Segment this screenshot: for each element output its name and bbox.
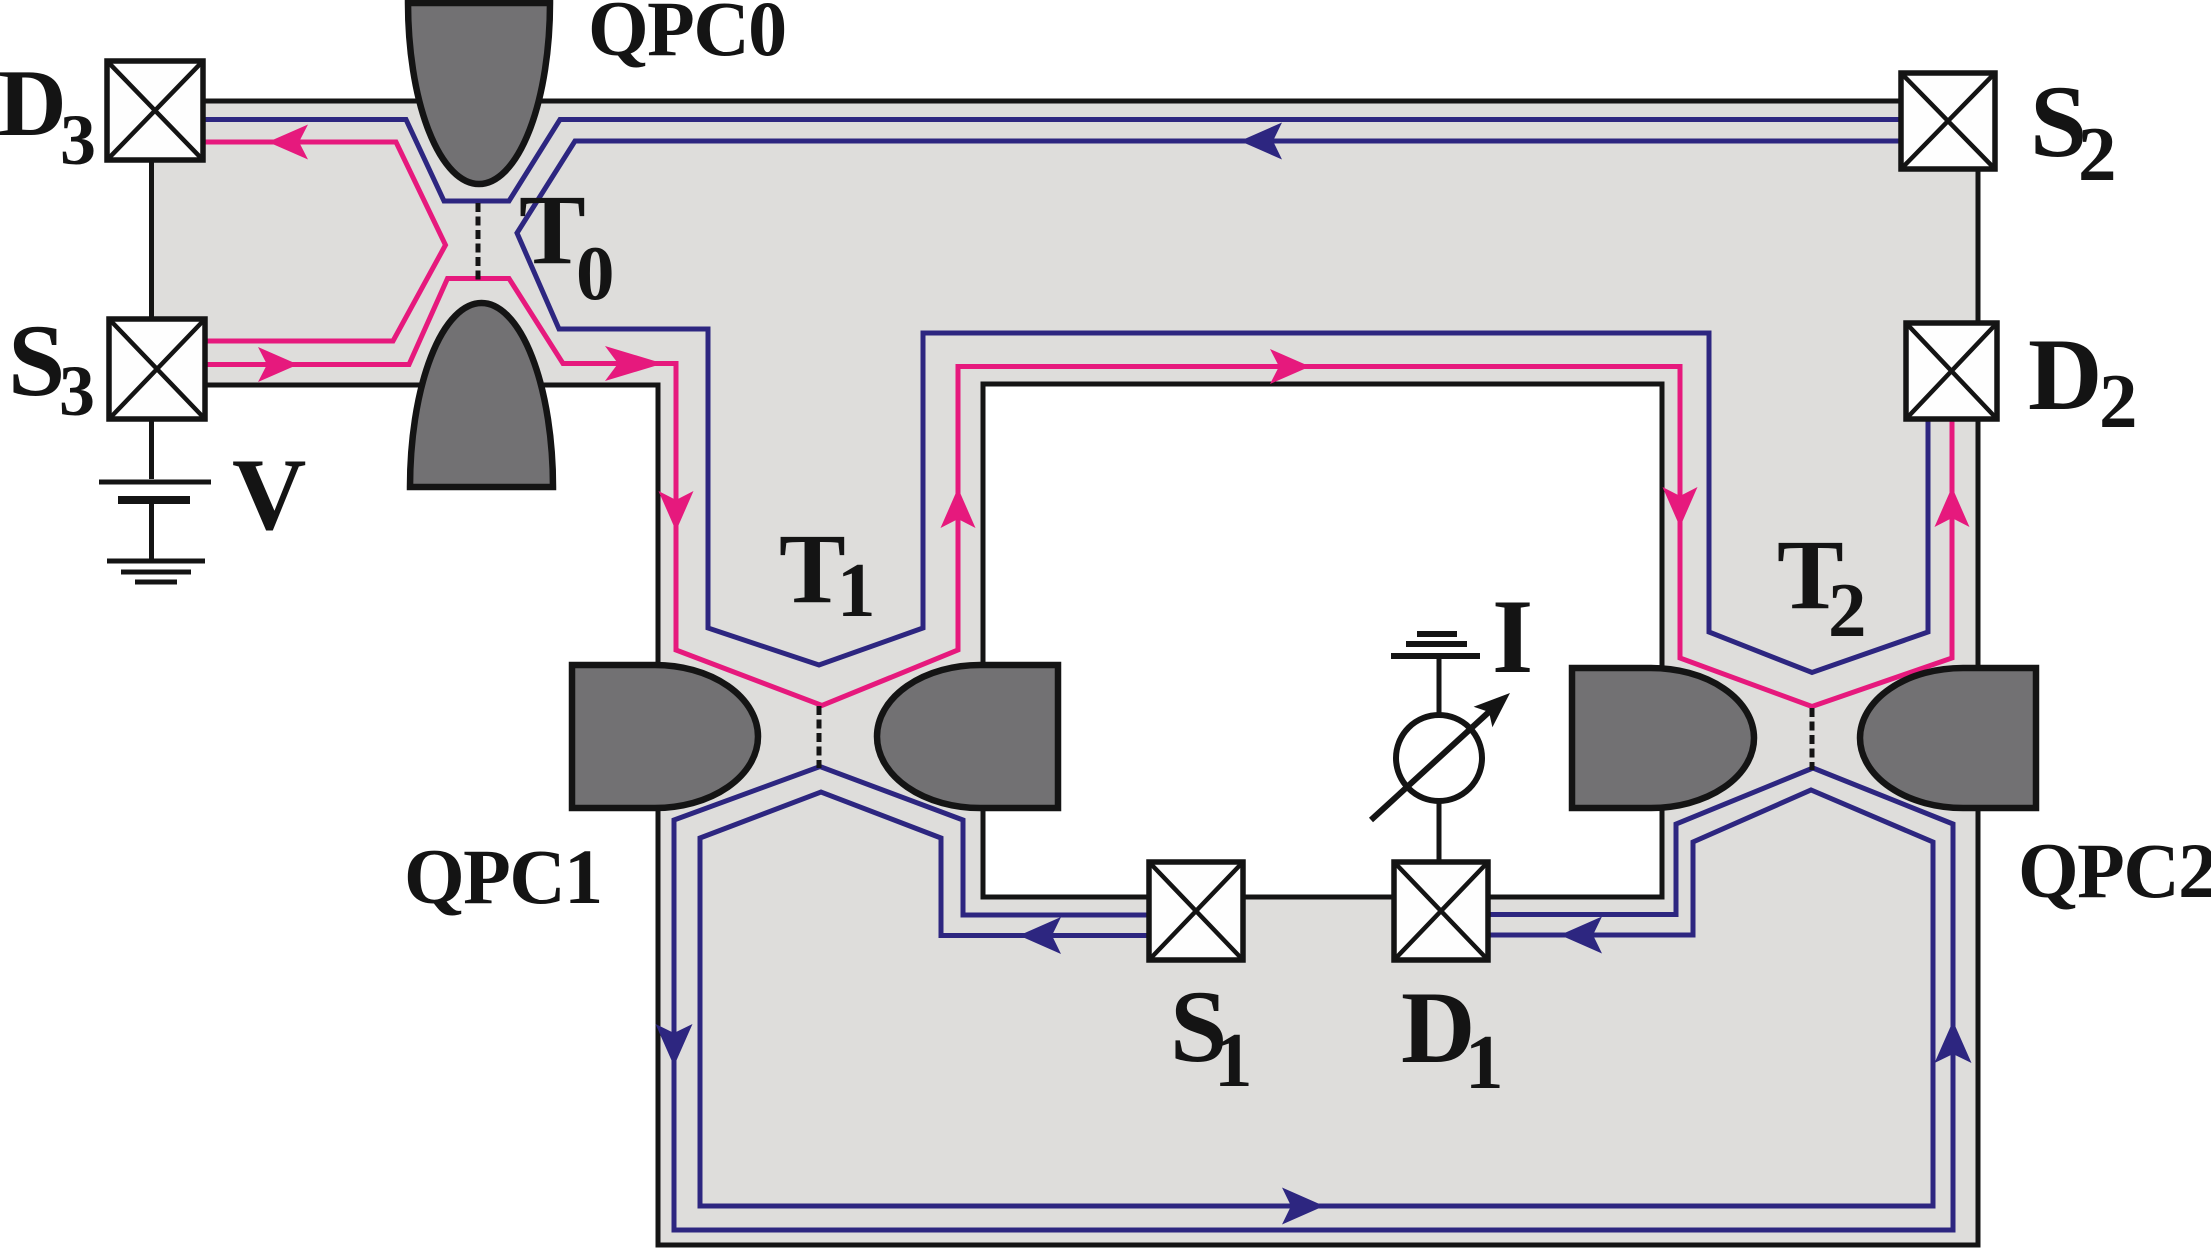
- svg-text:1: 1: [1214, 1017, 1253, 1103]
- svg-text:QPC1: QPC1: [404, 833, 602, 920]
- svg-text:2: 2: [2099, 358, 2138, 444]
- svg-text:S: S: [8, 304, 65, 418]
- svg-text:D: D: [2028, 318, 2102, 432]
- svg-text:3: 3: [60, 100, 96, 180]
- svg-text:1: 1: [837, 547, 876, 633]
- svg-text:3: 3: [59, 351, 95, 431]
- svg-text:T: T: [779, 513, 846, 624]
- svg-text:2: 2: [1828, 567, 1867, 653]
- svg-text:QPC0: QPC0: [588, 0, 786, 72]
- svg-text:0: 0: [576, 230, 615, 316]
- svg-text:2: 2: [2078, 111, 2117, 197]
- svg-text:1: 1: [1465, 1019, 1504, 1105]
- svg-text:V: V: [232, 438, 306, 552]
- svg-text:I: I: [1492, 578, 1533, 695]
- svg-text:D: D: [0, 50, 67, 156]
- svg-text:QPC2: QPC2: [2018, 827, 2211, 914]
